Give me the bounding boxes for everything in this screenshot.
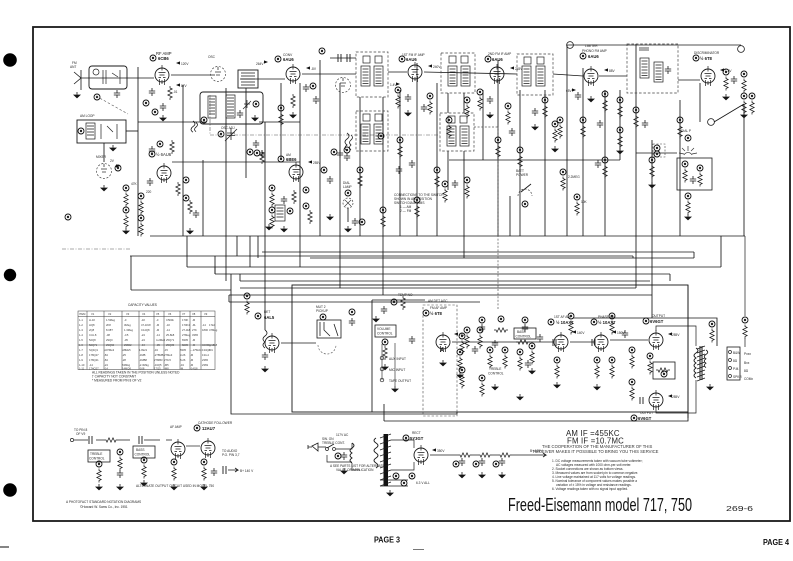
hres between [516,340,530,344]
svg-text:4.18k8: 4.18k8 [209,343,218,347]
svg-text:* MEASURED FROM PIN 8 OF V2: * MEASURED FROM PIN 8 OF V2 [92,379,142,383]
input chain wire [74,439,172,441]
wire vertical x690 drop to audio [687,285,689,418]
svg-text:C14Q8: C14Q8 [141,328,150,332]
tube 12AU7 a [171,439,185,459]
svg-text:CONTROL: CONTROL [488,372,504,376]
T5 coil b [460,126,469,146]
B1 internal parts [93,69,120,84]
wire horizontal top rail y84 left [81,77,154,79]
svg-text:DISCRIMINATOR: DISCRIMINATOR [694,51,720,55]
wire terminals vertical [382,343,395,386]
svg-text:117V AC: 117V AC [336,433,349,437]
svg-text:1-2: 1-2 [79,323,83,327]
svg-text:-M-: -M- [192,323,196,327]
switch feed wire [509,196,511,236]
svg-text:C500k: C500k [166,318,174,322]
T6 cap top [639,48,649,50]
res x467 mid [464,327,470,349]
svg-text:CONTROL: CONTROL [89,457,105,461]
stray mark below page3 [413,549,424,551]
T2 coil a [361,124,370,144]
wire eye feed y153 [636,152,677,154]
ref V11 [591,319,597,325]
phono jack box [317,320,341,338]
rect output wire [430,454,458,456]
batt res [442,181,448,203]
cap x347 [344,153,350,161]
bus line y236 [150,235,745,237]
stack x545 [542,97,548,119]
alt pot1 [96,461,102,483]
gnd transformer [706,384,714,390]
ref 6 [157,141,163,147]
wire pre-T1 [330,57,356,59]
table cell text [79,312,218,370]
cap t [381,306,387,314]
V10 cath res [554,357,560,379]
svg-text:P.O. PIN 3,7: P.O. PIN 3,7 [222,453,240,457]
stack x467 b [464,177,470,199]
cap x495 [492,340,498,348]
T1 coil a [361,66,370,86]
svg-text:47K: 47K [131,182,138,186]
stack audio x480 [477,327,483,349]
gnd am osc [265,224,273,230]
V13 res [629,379,635,401]
stray mark bottom left [0,546,9,548]
svg-text:2K8: 2K8 [106,323,111,327]
svg-text:285V: 285V [672,333,680,337]
svg-text:1-1: 1-1 [79,318,83,322]
svg-text:1-3: 1-3 [79,328,83,332]
ref V7 [580,53,586,59]
stack x498 [495,137,501,159]
svg-text:B+ 140 V: B+ 140 V [240,469,254,473]
svg-text:6AU6: 6AU6 [492,57,503,62]
terminal tape [380,378,384,382]
svg-text:P.M.: P.M. [733,367,739,371]
svg-text:-14: -14 [202,323,206,327]
svg-text:H-1K: H-1K [89,318,95,322]
gnd line cap [340,468,348,474]
cap C2 [160,103,166,111]
treble pot [479,375,485,397]
svg-text:88V: 88V [609,69,616,73]
res osc [260,150,264,164]
voltage mixer [116,164,120,167]
svg-text:8Ω: 8Ω [744,369,749,373]
svg-text:285V: 285V [672,395,680,399]
voltage V3 grid [306,66,310,69]
jack dashed circle [318,345,336,354]
T3 coil b [461,66,470,86]
svg-text:27-3k8: 27-3k8 [182,328,191,332]
svg-text:264V: 264V [256,62,264,66]
svg-text:VOLUME: VOLUME [377,327,390,331]
speaker terminal strip [727,347,740,380]
svg-text:1.5Meg: 1.5Meg [106,318,115,322]
svg-text:2ND FM IF AMP: 2ND FM IF AMP [488,52,511,56]
gnd x535 [531,124,539,130]
gnd 6T8 [439,360,447,366]
voltage V8 plate [720,68,724,71]
stack x620 b [617,127,623,149]
stack x520 b [517,147,523,169]
svg-text:8205: 8205 [182,343,188,347]
ref 7 [183,177,189,183]
ref V8 [693,55,699,61]
det coil left [263,330,267,348]
filter res 3 [498,453,512,457]
svg-text:25Q71: 25Q71 [166,338,175,342]
strip terminals [729,351,732,354]
T4 coil b [536,66,545,86]
eye gnd [684,214,692,220]
dashed gang line [96,96,128,114]
osc tank box [200,92,263,124]
V13 grid cap [640,397,643,404]
PT laminations [380,434,391,486]
svg-text:170K: 170K [182,318,188,322]
svg-text:8.08T: 8.08T [106,328,113,332]
svg-text:-84: -84 [104,358,108,362]
svg-text:½ 10AX7: ½ 10AX7 [598,320,616,325]
gang dashed line horizontal [474,126,498,128]
wire vertical rail x636 [635,44,637,288]
V15b cap [211,468,217,476]
res x360 [358,174,362,188]
V5 ground [404,110,412,116]
V5 cathode stack [395,87,401,109]
chain cap 1 [89,436,92,444]
wire vertical rail x520 [519,90,521,236]
voltage 6V6 bottom [668,394,672,397]
svg-text:DET: DET [264,310,270,314]
bus drop x694 [693,252,695,258]
svg-text:6. Voltage readings taken with: 6. Voltage readings taken with no signal… [552,487,628,491]
wire vertical rail x226 [225,88,227,281]
bus line y288 [240,287,636,289]
svg-text:3365: 3365 [192,333,198,337]
AM osc coil [275,205,285,221]
wire vertical rail x183 [182,85,184,236]
gnd det [261,366,269,372]
tube V4 am conv [289,162,303,182]
dial lamp ref [345,190,351,196]
svg-text:2369: 2369 [202,363,208,367]
wire vertical rail x320 [319,60,321,236]
cap x645 [642,120,648,128]
ref V5 [399,56,405,62]
V8 out res a [723,69,729,91]
tube 10AX7 a [554,332,568,352]
wire diagonal discriminator [714,104,744,122]
switch ref [522,201,528,207]
wire horizontal rail y84 stage2 [240,78,285,80]
svg-text:52Q71: 52Q71 [89,343,98,347]
res x172 [170,140,174,154]
bus line y252 [262,251,694,253]
alt pot2 [141,457,147,479]
svg-text:6CB6: 6CB6 [158,56,169,61]
gnd x744 [740,112,748,118]
stack x577 [574,194,580,216]
svg-text:1-8: 1-8 [79,353,83,357]
tube V5 [408,62,422,82]
filter res 2 [478,453,492,457]
wire vertical rail x567 [566,45,568,236]
svg-text:2 — FM: 2 — FM [400,209,412,213]
svg-text:8-26: 8-26 [180,358,186,362]
V7 grid cap [575,92,581,100]
loop box B2 [77,120,126,143]
wire vertical rail x400 [399,90,401,236]
dial lamp wire [347,208,349,222]
cap x120 [117,470,123,478]
bus line y290 [131,289,231,291]
cap at 6T8 grid [409,336,415,344]
power plug [308,443,318,451]
cap x535 [532,108,538,116]
svg-text:V5: V5 [156,312,160,316]
svg-text:6AU6: 6AU6 [406,57,417,62]
ref eye [685,135,691,141]
bus drop x670 [669,274,671,281]
bus drop x633 [632,256,634,258]
wire horizontal plate rail stage1 [171,74,215,76]
svg-text:8Ω: 8Ω [733,359,738,363]
bus line y267 [187,236,721,267]
alt wire between tubes [186,445,200,447]
voltage 10AX7a [572,330,576,333]
svg-text:PAGE 4: PAGE 4 [763,537,789,547]
ref V12 [643,318,649,324]
cap C1 [114,90,120,98]
small dashed box left of eye [653,144,665,157]
svg-text:V3: V3 [126,312,130,316]
stack x583 res [580,117,586,139]
tube 5Y3 [414,445,428,465]
res col x190 [188,200,192,214]
fb res [656,368,670,372]
svg-text:-1MB: -1MB [139,353,146,357]
pre-T1 cap b [347,54,350,62]
svg-text:-28: -28 [122,358,126,362]
svg-text:220: 220 [146,190,152,194]
eye box res b [697,165,703,187]
ref V6 [485,56,491,62]
svg-text:-34: -34 [141,343,145,347]
input cap c [522,324,528,332]
input cap a [479,324,485,332]
cap x600 [597,120,603,128]
svg-text:8305: 8305 [180,348,186,352]
wire osc row y162 [172,161,300,163]
svg-text:25Q05: 25Q05 [166,343,175,347]
voltage rect [432,448,436,451]
V5 cap [405,94,411,102]
gnd terminals [391,386,399,392]
T5 trimmer squares [448,116,455,123]
T3 trimmer squares [449,56,456,63]
svg-text:Bxx: Bxx [744,361,750,365]
ref 5 [115,165,121,171]
svg-text:VALUE OR APPLICATION: VALUE OR APPLICATION [336,468,374,472]
stack x555 [552,121,558,143]
ref 14 [303,187,309,193]
gnd x520 [516,394,524,400]
svg-text:-14Q8: -14Q8 [190,366,198,370]
terminal mic [380,367,384,371]
svg-text:6V6GT: 6V6GT [650,319,664,324]
T4 coil a [522,66,531,86]
tuning lamp starburst [679,146,697,155]
svg-text:-15: -15 [164,348,168,352]
dashed tube osc [211,67,226,82]
osc tank coil a [208,96,216,118]
cap right of jack [349,318,355,326]
V12 cath res [647,353,653,375]
stack x400 res [397,137,403,159]
svg-text:1800: 1800 [202,328,208,332]
svg-text:-14: -14 [166,328,170,332]
drop x384 [383,404,385,421]
bus drop x258 [257,236,259,258]
vol pot [382,339,388,345]
svg-text:V1: V1 [91,312,95,316]
discriminator can T6 [627,44,678,93]
bus line y302 [229,301,480,303]
gnd x620 [616,148,624,154]
bass control box alt [133,446,155,458]
V7 stack a [602,91,608,113]
voltage V1 plate [176,61,180,64]
svg-text:TREBLE: TREBLE [489,367,501,371]
svg-text:BASS: BASS [517,330,526,334]
wire vertical rail x340 [339,83,341,288]
dial lamp gnd [344,226,352,232]
T4 trimmer squares [524,57,531,64]
ground V2 [186,228,194,234]
wire vertical rail x744 [743,104,745,236]
ground left stack [122,228,130,234]
V6 cathode stack [477,89,483,111]
voltage phase inv [612,330,616,333]
transformer laminations [697,346,705,381]
V8 gnd [722,94,730,100]
osc tank coil b [226,95,235,118]
res x632 [629,347,635,369]
B2 parts [101,124,117,139]
svg-text:AF AMP: AF AMP [170,425,182,429]
svg-text:RECT: RECT [412,431,421,435]
cap x598 [595,160,601,168]
svg-text:1-5: 1-5 [79,338,83,342]
V8 out cap [731,76,737,84]
svg-text:120V: 120V [181,62,189,66]
eye box [677,158,712,190]
cap x512 [509,128,515,136]
res x752 [749,93,755,115]
stack audio x532 [529,343,535,365]
T3 coil a [448,66,457,86]
svg-text:1.4V: 1.4V [390,83,397,87]
res x744 a [741,71,747,93]
svg-text:Freed-Eisemann model 717, 750: Freed-Eisemann model 717, 750 [508,495,692,515]
pot res [383,346,387,360]
svg-text:27K: 27K [192,328,197,332]
pre-T1 cap a [338,54,341,62]
bus line y281 [240,280,650,282]
svg-text:1.3Meg: 1.3Meg [124,328,133,332]
svg-text:H8Me5: H8Me5 [122,348,131,352]
svg-text:AM DET AGC: AM DET AGC [428,299,448,303]
node circle C [708,119,715,126]
wire vertical rail x265 [264,122,266,330]
ref 3 [143,100,149,106]
svg-text:6AL5: 6AL5 [264,315,275,320]
svg-text:47Meg: 47Meg [209,328,218,332]
svg-text:2365: 2365 [202,358,208,362]
svg-text:TAPE OUTPUT: TAPE OUTPUT [389,379,411,383]
ref t [391,299,397,305]
svg-text:3-26: 3-26 [180,353,186,357]
stack x563 [560,169,566,191]
mixer ground [100,185,108,191]
cap x424 [421,104,427,112]
ref 12 [247,149,253,155]
tube 6AL5 [265,333,279,353]
osc tank gnd [251,115,259,121]
terminal aux [380,356,384,360]
wire vertical rail x483 [482,90,484,160]
gnd audio x532 [528,368,536,374]
filter res 1 [458,453,472,457]
ref 8 [183,195,189,201]
cap left rail [259,150,265,158]
cap x528 [525,360,531,368]
cap x399 [396,166,402,174]
wire vertical rail x383 [382,97,384,295]
svg-text:C41-8: C41-8 [89,333,97,337]
stack audio x460 [457,349,463,371]
filter cap 1 [459,458,465,466]
svg-text:-C5: -C5 [124,333,129,337]
V15a cath res [171,459,177,481]
wire horizontal y160 [449,159,620,161]
left stack ref a [123,185,129,207]
V7 stack b [617,97,623,119]
stack x508 [505,103,511,125]
filter cap 2 [479,458,485,466]
wire horizontal y122 [138,121,300,123]
svg-text:29Q60: 29Q60 [106,343,115,347]
gnd f3 [498,472,506,478]
bus line y258 [310,257,694,259]
V15b cath res [201,459,207,481]
bus drop x250 [249,236,251,267]
svg-text:2Q8: 2Q8 [89,328,95,332]
wire x745 down [744,236,746,347]
chain res [104,438,118,442]
cap det [262,352,268,360]
antenna coil box B1 [89,66,127,89]
wire det to vol [281,342,316,344]
res x310 [308,210,312,224]
punch hole bottom [3,483,17,497]
svg-text:240V: 240V [433,65,441,69]
